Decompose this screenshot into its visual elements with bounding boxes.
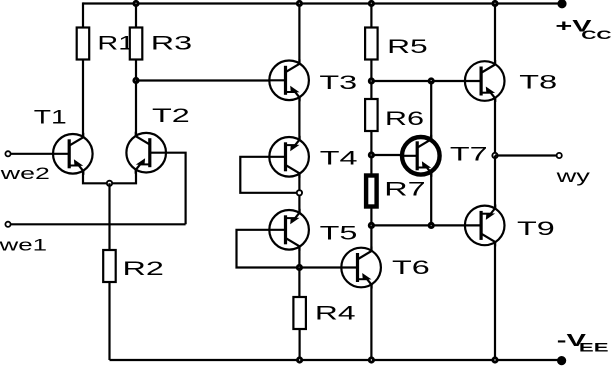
- wire node E to T7 base: [371, 154, 401, 156]
- svg-text:wy: wy: [555, 166, 590, 186]
- node A (R3 / T2 collector / T3 base): [132, 77, 139, 84]
- node top rail / R5: [368, 0, 375, 7]
- wire T5 collector to node C: [298, 247, 300, 268]
- terminal wy: [557, 153, 562, 158]
- svg-text:T6: T6: [392, 257, 430, 279]
- wire R4 to bottom rail: [299, 329, 301, 360]
- node top rail / T3 collector: [296, 0, 303, 7]
- resistor R6: [365, 99, 378, 131]
- wire R5 to node D: [370, 60, 372, 100]
- wire T1 emitter to common node: [83, 171, 110, 184]
- resistor R3: [130, 28, 143, 60]
- wire T7 emitter to node F2: [430, 172, 432, 226]
- node D (R5 / R6 / T8 base): [368, 77, 375, 84]
- wire -Vee bottom rail: [110, 359, 563, 361]
- terminal we1: [5, 222, 10, 227]
- label +Vcc: [555, 17, 611, 42]
- wire T5 base loop: [237, 230, 300, 268]
- wire node D to T8 base: [371, 80, 464, 82]
- wire top rail to T3 collector: [298, 4, 300, 65]
- wire +Vcc top rail: [83, 2, 562, 4]
- transistor T8: [465, 60, 505, 102]
- node F (R7 / T6 collector / T9 base): [368, 222, 375, 229]
- svg-text:T8: T8: [519, 71, 557, 93]
- wire we1 input line: [11, 223, 186, 225]
- wire we2 input to T1 base: [11, 153, 53, 155]
- wire T2 base to we1: [167, 153, 186, 225]
- svg-text:we1: we1: [0, 235, 47, 254]
- node F2 (T7 emitter tap): [428, 222, 435, 229]
- wire T9 collector to bottom rail: [494, 243, 496, 360]
- transistor T7: [402, 135, 440, 177]
- wire T4 collector to T5 emitter: [298, 174, 300, 214]
- wire T6 emitter to bottom rail: [370, 285, 372, 361]
- svg-text:R7: R7: [384, 178, 425, 200]
- wire T2 emitter to common node: [110, 169, 137, 183]
- wire node A to T2 collector: [135, 81, 137, 137]
- svg-text:R2: R2: [123, 257, 164, 279]
- node T4 base/collector: [296, 189, 303, 196]
- node B (T1/T2 emitters): [106, 180, 113, 187]
- wire node C to T6 base: [299, 266, 340, 268]
- transistor T5: [269, 209, 309, 251]
- terminal -Vee: [557, 356, 566, 365]
- node R4 / bottom rail: [296, 356, 303, 363]
- wire R2 to bottom rail: [108, 282, 110, 360]
- wire wy node to T9 emitter: [494, 156, 496, 209]
- wire T4 base loop: [240, 157, 299, 193]
- transistor T4: [269, 136, 309, 178]
- wire T8 emitter to wy node: [494, 98, 496, 155]
- wire node F to T9 base: [371, 224, 464, 226]
- resistor R4: [293, 297, 306, 329]
- svg-text:R6: R6: [385, 108, 424, 129]
- wire top rail to R5: [370, 4, 372, 28]
- svg-text:we2: we2: [0, 164, 50, 183]
- wire R3 to node A: [135, 60, 137, 81]
- svg-text:T4: T4: [320, 147, 358, 169]
- label -Vee: [557, 330, 609, 354]
- wire top rail to R3: [135, 4, 137, 28]
- node E (R6 / R7 / T7 base): [368, 151, 375, 158]
- wire node A to T3 base: [136, 79, 269, 81]
- svg-text:R5: R5: [387, 35, 428, 57]
- terminal we2: [5, 151, 10, 156]
- svg-text:R4: R4: [315, 302, 356, 324]
- svg-text:T1: T1: [34, 107, 67, 129]
- node T6 emitter / bottom rail: [368, 356, 375, 363]
- node top rail / R3: [132, 0, 139, 7]
- wire node D2 to T7 collector: [430, 81, 432, 139]
- wire top rail to T8 collector: [494, 4, 496, 66]
- transistor T3: [269, 59, 309, 101]
- wire top rail to R1: [82, 2, 84, 27]
- transistor T9: [465, 204, 505, 246]
- wire wy node to output terminal: [495, 154, 557, 156]
- wire node C to R4: [298, 268, 300, 298]
- svg-text:T3: T3: [319, 71, 357, 93]
- transistor T1: [53, 133, 93, 175]
- node T9 / bottom rail: [491, 356, 498, 363]
- transistor T6: [341, 247, 381, 289]
- node G (output wy): [491, 152, 498, 159]
- svg-text:EE: EE: [579, 341, 609, 354]
- svg-text:T7: T7: [450, 143, 488, 165]
- terminal +Vcc: [557, 0, 566, 8]
- svg-text:CC: CC: [581, 28, 611, 41]
- node C (T5 collector / T6 base / R4): [296, 264, 303, 271]
- svg-text:R3: R3: [151, 32, 192, 54]
- resistor R7: [366, 176, 377, 207]
- svg-text:T9: T9: [517, 217, 555, 239]
- node D2 (T7 collector tap): [428, 77, 435, 84]
- resistor R5: [365, 28, 378, 60]
- transistor T2: [126, 132, 166, 174]
- svg-text:T5: T5: [320, 222, 358, 244]
- wire R7 to node F: [370, 207, 372, 252]
- svg-text:T2: T2: [152, 105, 190, 127]
- resistor R2: [103, 250, 116, 282]
- wire R1 to T1 collector: [82, 60, 84, 138]
- wire node B to R2: [108, 183, 110, 250]
- wire R6 to node E: [370, 131, 372, 176]
- node top rail / T8 collector: [491, 0, 498, 7]
- wire T3 emitter to T4 emitter: [298, 98, 300, 141]
- resistor R1: [77, 28, 90, 60]
